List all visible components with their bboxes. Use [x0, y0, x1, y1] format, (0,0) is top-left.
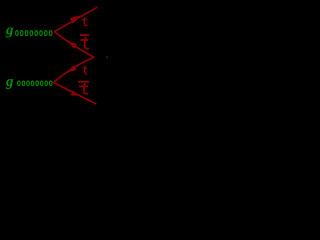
label tbar (top): stem and foot [85, 37, 89, 49]
label t (bottom): stem and foot [84, 66, 86, 74]
arrowhead on t segment pointing down-left toward V2 [68, 65, 77, 72]
gluon coil 1 [16, 31, 52, 36]
arrowhead on outgoing tbar pointing down-right [71, 90, 79, 96]
arrowhead on tbar segment pointing up-left toward V1 [68, 41, 78, 49]
label tbar (bottom): overbar [78, 81, 89, 83]
wire: outgoing tbar line (V2 to bottom right) [53, 82, 96, 104]
label tbar (bottom): stem and foot [84, 83, 88, 94]
gluon coil 2 [18, 81, 52, 86]
label tbar (bottom): crossbar [79, 86, 88, 88]
background [0, 0, 150, 113]
label tbar (top): overbar [80, 34, 89, 36]
label t (top): crossbar [82, 19, 87, 21]
svg-text:g: g [5, 74, 14, 90]
label t (bottom): crossbar [83, 68, 87, 69]
wire: internal tbar segment (V1 to middle vertex M) [54, 32, 94, 58]
faint green speck near middle vertex [106, 56, 108, 58]
wire: outgoing t line (vertex V1 to top right) [54, 7, 97, 32]
wire: internal t segment (middle vertex M to V2) [53, 57, 94, 82]
arrowhead on t line pointing up-right [70, 15, 82, 24]
label t (top): stem and foot [84, 18, 87, 26]
svg-text:g: g [5, 22, 14, 38]
label tbar (top): crossbar [80, 39, 88, 41]
